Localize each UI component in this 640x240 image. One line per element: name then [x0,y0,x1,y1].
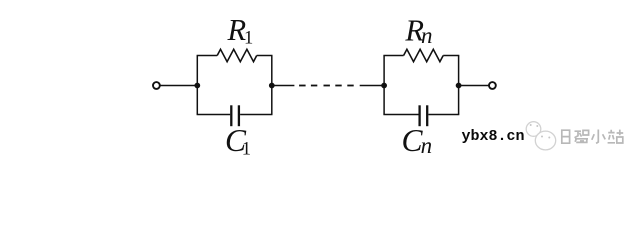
wire top rail right stub block n [443,55,459,57]
node B junction dot [269,83,275,89]
watermark chinese characters [562,130,623,144]
watermark sketch icon (chat bubbles) [526,122,556,150]
wire bottom rail right stub block n [428,114,459,116]
svg-text:n: n [421,23,433,48]
terminal right port [489,82,496,89]
wire bottom rail left stub block n [383,114,418,116]
label R1 [227,13,254,48]
wire dashed continuation [299,85,354,87]
wire top rail left stub block n [383,55,403,57]
svg-text:1: 1 [244,29,253,49]
wire bottom rail left stub block 1 [197,114,231,116]
resistor Rn [404,49,444,61]
label C1 [225,123,251,160]
wire right rail of RC block n [458,56,460,115]
wire top rail right stub block 1 [257,55,273,57]
node D junction dot [456,83,462,89]
wire solid segment from node B [272,85,295,87]
wire solid segment into node C [360,85,384,87]
label Rn [404,13,432,48]
svg-text:n: n [421,133,433,158]
ri sun glyph [562,130,570,143]
wire right rail of RC block 1 [271,56,273,115]
wire left terminal to node A [160,85,197,87]
jia glyph [575,130,589,142]
label Cn [402,123,433,158]
node C junction dot [381,83,387,89]
wire left rail of RC block n [383,56,385,115]
svg-text:1: 1 [242,139,251,159]
zhan glyph [608,130,624,143]
terminal left port [153,82,160,89]
svg-text:ybx8.cn: ybx8.cn [462,128,525,145]
xiao glyph [592,130,605,144]
wire node D to right terminal [459,85,489,87]
capacitor C1 [231,105,239,126]
wire top rail left stub block 1 [197,55,218,57]
wire left rail of RC block 1 [196,56,198,115]
wire bottom rail right stub block 1 [240,114,272,116]
resistor R1 [217,49,257,61]
capacitor Cn [420,105,428,126]
node A junction dot [194,83,200,89]
